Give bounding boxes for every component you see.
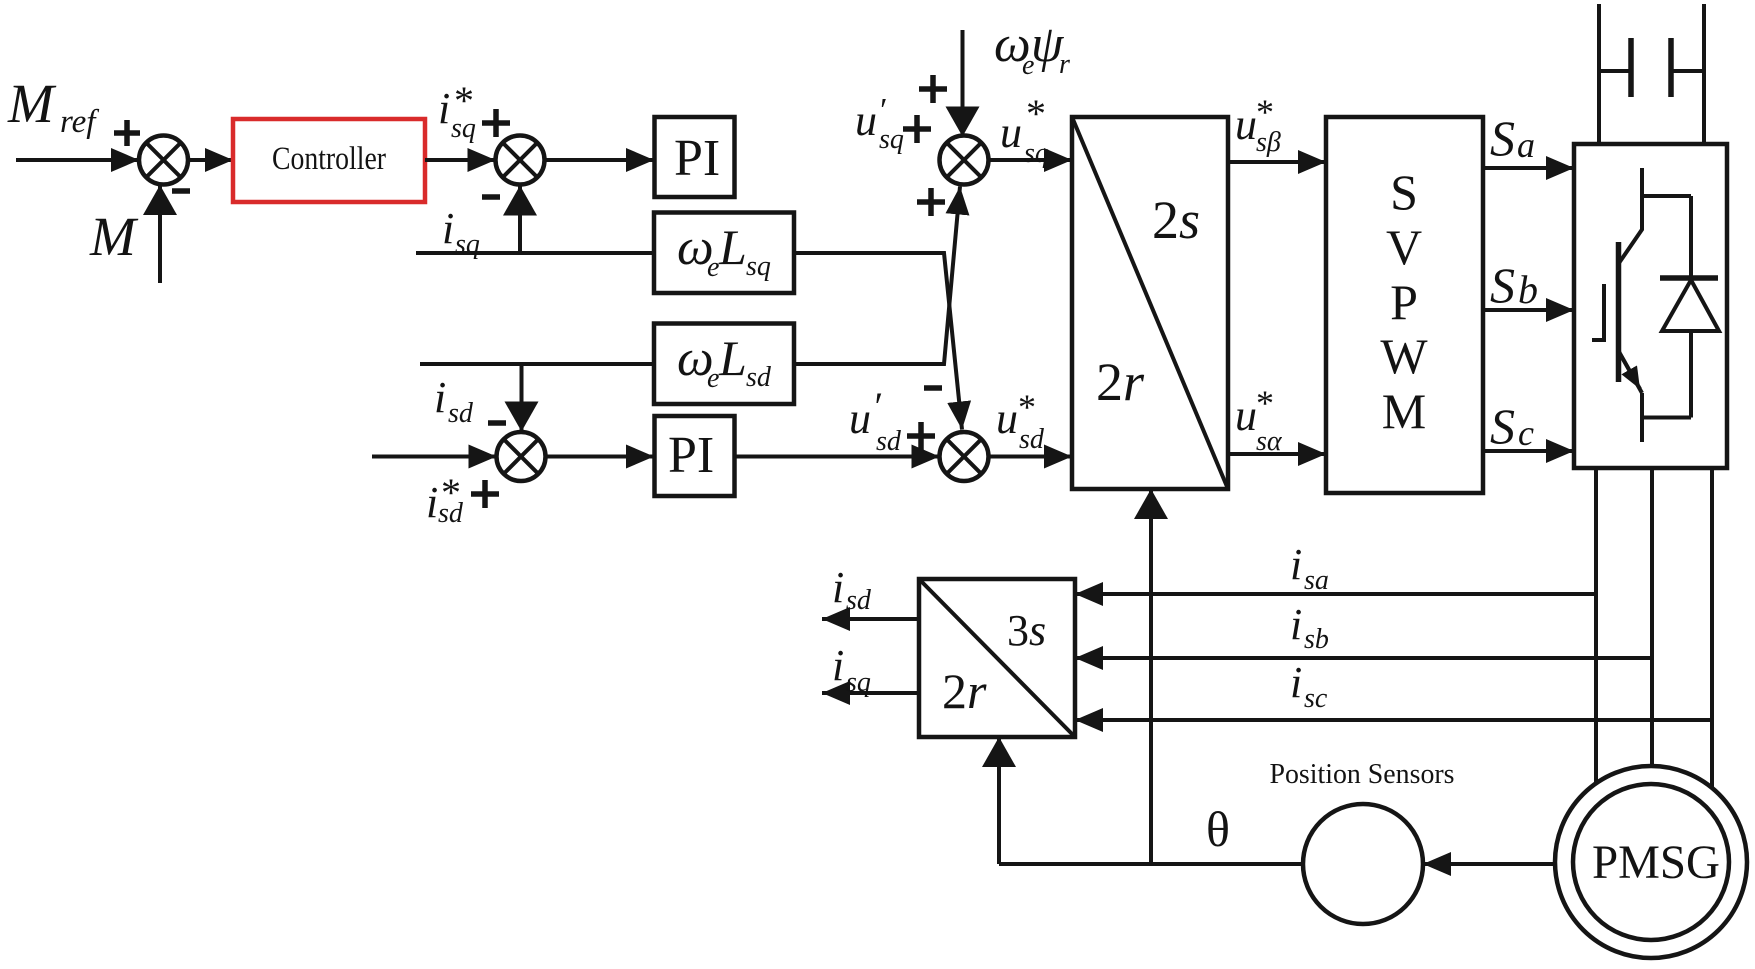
svg-text:′: ′ — [872, 384, 882, 429]
wire S2 to PI1 — [545, 158, 655, 162]
svg-text:sq: sq — [879, 124, 904, 155]
svg-text:u: u — [1235, 391, 1257, 440]
plus sign at S2 input — [482, 109, 510, 137]
summing junction S2 — [496, 136, 545, 185]
svg-text:u: u — [855, 96, 877, 145]
wire Mref input arrow into summing junction S1 — [16, 158, 139, 162]
IGBT Q1 gate lead — [1592, 284, 1604, 340]
svg-text:sβ: sβ — [1256, 127, 1281, 158]
svg-text:u: u — [996, 394, 1018, 443]
wire i_sa current into 3s2r — [1075, 592, 1596, 596]
wire i*_sd input arrow into S3 — [372, 455, 497, 459]
plus sign at S4 top input — [919, 75, 947, 103]
plus sign at S1 input — [114, 120, 140, 146]
wire i_sq output arrow from 3s2r — [822, 691, 919, 695]
summing junction S3 — [497, 432, 546, 481]
decoupling gain box wLsq — [654, 213, 794, 294]
DC link capacitor C1 — [1599, 38, 1704, 97]
PI controller box PI1 — [655, 117, 735, 197]
decoupling gain box wLsd — [654, 324, 794, 405]
phase line c from inverter to PMSG — [1710, 468, 1714, 788]
svg-text:sα: sα — [1256, 426, 1283, 457]
svg-text:r: r — [1059, 49, 1070, 80]
svg-text:V: V — [1386, 219, 1422, 275]
controller box (red) — [233, 119, 425, 202]
label u*_sd — [996, 387, 1045, 455]
wire M feedback arrow up into S1 — [158, 185, 162, 283]
svg-text:sd: sd — [876, 426, 902, 457]
IGBT Q1 emitter with arrow — [1619, 351, 1643, 442]
PMSG machine G1 — [1555, 766, 1747, 958]
wire i_sb current into 3s2r — [1075, 656, 1652, 660]
svg-text:2s: 2s — [1152, 190, 1200, 250]
wire Controller to summing junction S2 — [425, 158, 496, 162]
wire i_sc current into 3s2r — [1075, 718, 1712, 722]
wire i_sd feedback horizontal into wLsd box — [420, 362, 654, 366]
wire omega_e psi_r arrow down into S4 — [961, 30, 965, 137]
label S_b — [1490, 257, 1538, 313]
IGBT Q1 collector lead — [1619, 168, 1642, 263]
label M_ref — [7, 73, 99, 140]
svg-text:θ: θ — [1206, 801, 1230, 857]
svg-text:sq: sq — [746, 251, 771, 282]
wire Sc gate signal to inverter — [1483, 449, 1574, 453]
phase line a from inverter to PMSG — [1594, 468, 1598, 784]
minus sign at S2 feedback — [482, 194, 500, 200]
svg-text:sq: sq — [846, 667, 871, 698]
wire PMSG to position sensor — [1423, 862, 1555, 866]
svg-text:L: L — [718, 219, 747, 275]
label S_a — [1490, 110, 1535, 166]
label i_sd output — [832, 563, 872, 616]
svg-text:sd: sd — [846, 585, 872, 616]
svg-text:W: W — [1380, 328, 1428, 384]
wire u*_sbeta from 2s2r to SVPWM — [1228, 160, 1326, 164]
svg-text:i: i — [832, 563, 844, 612]
svg-text:S: S — [1490, 257, 1515, 313]
svg-text:sd: sd — [448, 398, 474, 429]
freewheeling diode D1 — [1660, 196, 1719, 418]
svg-text:*: * — [1256, 383, 1274, 423]
svg-text:u: u — [849, 394, 871, 443]
wire theta arrow up into 3s2r box — [997, 737, 1001, 864]
svg-text:e: e — [707, 252, 719, 283]
svg-text:Position Sensors: Position Sensors — [1270, 758, 1455, 790]
label omega_e psi_r — [994, 16, 1070, 81]
svg-text:P: P — [1390, 274, 1418, 330]
wire Sb gate signal to inverter — [1483, 308, 1574, 312]
wire PI2 to summing junction S5 — [735, 455, 940, 459]
wire crossing line from wLsd output up into S4 — [794, 187, 960, 365]
plus sign at S4 lower input — [917, 188, 945, 216]
svg-text:sd: sd — [746, 362, 772, 393]
svg-text:i: i — [1290, 658, 1302, 707]
label u*_sbeta — [1235, 92, 1281, 158]
svg-text:u: u — [1235, 100, 1257, 149]
svg-text:M: M — [1382, 383, 1426, 439]
DC bus rail left — [1597, 4, 1601, 144]
wire crossing line from wLsq output down into S5 — [794, 253, 962, 430]
IGBT Q1 body bar — [1616, 242, 1622, 382]
label i*_sq — [438, 78, 476, 144]
label u*_sq — [1000, 91, 1049, 169]
wire theta from sensor to left — [999, 862, 1303, 866]
svg-text:b: b — [1518, 267, 1538, 312]
svg-text:i: i — [434, 373, 446, 422]
PI controller box PI2 — [655, 416, 735, 496]
svg-text:2r: 2r — [942, 663, 987, 719]
label i*_sd — [426, 470, 464, 529]
svg-text:sq: sq — [1024, 138, 1049, 169]
summing junction S5 — [940, 432, 989, 481]
label u'_sd — [849, 384, 902, 457]
wire S1 to Controller — [188, 158, 233, 162]
svg-text:sc: sc — [1304, 683, 1328, 714]
svg-text:PI: PI — [674, 130, 720, 187]
svg-text:L: L — [718, 330, 747, 386]
label u*_salpha — [1235, 383, 1283, 457]
wire emitter to diode branch — [1642, 416, 1691, 420]
plus sign at S3 input — [471, 480, 499, 508]
label u'_sq — [855, 92, 904, 155]
svg-text:*: * — [1256, 92, 1274, 132]
summing junction S1 — [139, 136, 188, 185]
svg-text:c: c — [1518, 413, 1534, 453]
wire u*_salpha from 2s2r to SVPWM — [1228, 452, 1326, 456]
svg-text:PMSG: PMSG — [1592, 836, 1720, 889]
transform box 3s/2r — [919, 579, 1075, 737]
svg-text:i: i — [1290, 540, 1302, 589]
minus sign at S3 feedback — [488, 420, 506, 426]
svg-text:ref: ref — [60, 104, 99, 140]
svg-text:sq: sq — [451, 113, 476, 144]
svg-text:i: i — [832, 641, 844, 690]
SVPWM box — [1326, 117, 1483, 493]
label S_c — [1490, 398, 1534, 454]
svg-text:2r: 2r — [1096, 352, 1145, 412]
wire Sa gate signal to inverter — [1483, 166, 1574, 170]
position sensor circle — [1303, 804, 1423, 924]
wire i_sq branch arrow up into S2 — [518, 186, 522, 254]
svg-text:*: * — [1018, 387, 1036, 427]
svg-text:sq: sq — [455, 229, 480, 260]
svg-text:Controller: Controller — [272, 141, 386, 177]
label i_sc — [1290, 658, 1328, 714]
svg-text:a: a — [1517, 125, 1535, 165]
phase line b from inverter to PMSG — [1650, 468, 1654, 766]
svg-text:sd: sd — [1019, 424, 1045, 455]
label i_sd feedback — [434, 373, 474, 429]
svg-text:sb: sb — [1304, 624, 1329, 655]
svg-text:u: u — [1000, 108, 1022, 157]
plus sign at S5 input — [907, 422, 935, 450]
svg-text:*: * — [1026, 91, 1046, 136]
svg-text:PI: PI — [668, 427, 714, 484]
label i_sb — [1290, 600, 1329, 655]
wire S3 to PI2 — [546, 455, 655, 459]
minus sign at S1 feedback — [172, 188, 190, 194]
DC bus rail right — [1702, 4, 1706, 144]
wire S4 output u*_sq into 2s2r box — [989, 158, 1073, 162]
svg-text:i: i — [426, 478, 438, 527]
plus sign at S4 left input — [903, 115, 931, 143]
svg-text:M: M — [89, 206, 139, 267]
svg-text:M: M — [7, 73, 57, 134]
svg-text:i: i — [438, 84, 450, 133]
wire i_sq feedback horizontal into wLsq box — [416, 251, 654, 255]
svg-text:e: e — [707, 363, 719, 394]
label i_sa — [1290, 540, 1329, 596]
svg-text:i: i — [1290, 600, 1302, 649]
wire collector to diode branch — [1642, 194, 1691, 198]
inverter box — [1574, 144, 1727, 468]
wire theta branch arrow up into 2s2r box — [1149, 489, 1153, 864]
svg-text:i: i — [442, 204, 454, 253]
label i_sq output — [832, 641, 871, 698]
transform box 2s/2r — [1072, 117, 1228, 489]
svg-text:sd: sd — [438, 498, 464, 529]
svg-text:sa: sa — [1304, 565, 1329, 596]
svg-text:S: S — [1390, 164, 1418, 220]
wire i_sd branch arrow down into S3 — [520, 364, 524, 432]
summing junction S4 — [940, 136, 989, 185]
label i_sq feedback — [442, 204, 480, 260]
svg-text:3s: 3s — [1007, 606, 1046, 655]
minus sign at S5 vertical input — [924, 385, 942, 391]
wire S5 output u*_sd into 2s2r box — [989, 455, 1073, 459]
svg-text:S: S — [1490, 398, 1515, 454]
wire i_sd output arrow from 3s2r — [822, 617, 919, 621]
svg-text:S: S — [1490, 110, 1515, 166]
